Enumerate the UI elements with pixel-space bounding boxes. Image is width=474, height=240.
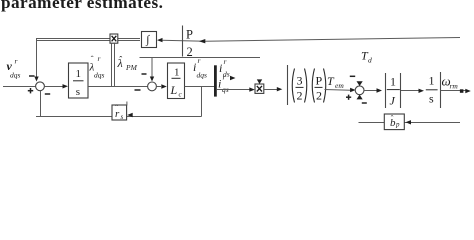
wire junction 1 to integrator — [45, 84, 69, 88]
svg-text:dqs: dqs — [10, 71, 21, 80]
minus sign friction input — [362, 102, 367, 104]
svg-text:1: 1 — [429, 74, 435, 88]
block 1/Lc — [168, 63, 185, 99]
gain (3/2)(P/2) torque constant — [292, 69, 326, 103]
wire i_qs to multiplier X2 — [217, 87, 255, 91]
wire gain 1/J to integrator 1/s — [401, 89, 424, 93]
wire junction 2 to block Lc — [157, 84, 167, 88]
wire current tap down to bottom rail — [201, 87, 203, 117]
svg-text:ˆ: ˆ — [91, 54, 94, 64]
summing junction 2 — [148, 82, 157, 91]
node input label v^r_dqs — [7, 57, 21, 80]
wire block Lc output to demux bar — [185, 86, 215, 88]
svg-text:P: P — [186, 28, 193, 42]
wire lambda_PM rail — [140, 57, 261, 59]
minus sign T_d input — [350, 75, 355, 77]
wire junction 1 bottom vertical — [40, 91, 42, 117]
svg-text:r: r — [98, 54, 101, 63]
arrowhead friction up into junction 3 — [357, 95, 363, 100]
svg-text:s: s — [121, 113, 124, 121]
wire torque to junction 3 — [325, 88, 356, 92]
wire bottom-left feedback rail — [36, 116, 202, 118]
node label T_d — [361, 49, 372, 65]
wire bottom-right friction rail — [359, 122, 461, 124]
block J (rotation by j) — [142, 32, 157, 48]
gain 1/J inline — [386, 73, 401, 108]
svg-text:1: 1 — [174, 67, 180, 79]
svg-text:2: 2 — [187, 45, 193, 59]
wire integrator output to junction 2 — [88, 86, 148, 88]
wire speed output — [441, 89, 471, 93]
arrowhead lambda_PM down into multiplier X2 — [257, 79, 262, 84]
wire multiplier X2 output — [264, 87, 283, 91]
svg-text:rm: rm — [450, 82, 459, 91]
svg-text:1: 1 — [76, 68, 82, 80]
wire lambda_PM branch down into junction 2 — [150, 58, 154, 82]
caption text "parameter estimates." (cropped at top) — [1, 0, 163, 12]
node label i^r_ds with arrow — [219, 57, 236, 80]
node multiplier X1 (omega x lambda) — [110, 34, 118, 43]
svg-text:s: s — [76, 86, 80, 98]
svg-text:J: J — [390, 94, 396, 108]
svg-text:s: s — [429, 92, 434, 106]
svg-text:r: r — [15, 57, 18, 66]
plus sign left input of junction 3 — [346, 95, 351, 100]
svg-text:parameter estimates.: parameter estimates. — [1, 0, 163, 12]
node label lambda^r_dqs — [89, 54, 105, 80]
wire long top rail from speed node — [199, 38, 460, 44]
block integrator 1/s — [69, 63, 89, 98]
svg-text:r: r — [223, 73, 226, 82]
svg-text:dqs: dqs — [94, 71, 105, 80]
svg-text:i: i — [218, 77, 221, 91]
svg-text:dqs: dqs — [197, 71, 208, 80]
svg-text:PM: PM — [125, 63, 138, 72]
svg-text:p: p — [395, 121, 400, 129]
svg-text:r: r — [198, 56, 201, 65]
svg-text:d: d — [368, 56, 372, 65]
demux thick bar — [214, 65, 217, 96]
svg-text:ˆ: ˆ — [391, 114, 394, 123]
minus sign bottom input of junction 1 — [45, 93, 50, 95]
node label omega_rm — [442, 74, 459, 91]
summing junction 3 — [355, 86, 364, 95]
wire left corner down to summing junction 1 — [34, 39, 38, 82]
node multiplier X2 (lambda_PM x i_qs) — [255, 84, 264, 93]
wire arrowhead into r_s block and tick — [127, 102, 133, 118]
block b_p friction estimate — [384, 114, 404, 130]
node label i^r_qs — [218, 73, 229, 95]
summing junction 1 — [36, 82, 45, 91]
wire junction 3 to gain 1/J — [364, 88, 382, 92]
svg-text:2: 2 — [297, 89, 303, 103]
gain P/2 inline on top rail — [183, 26, 194, 60]
node label i^r_dqs — [193, 56, 207, 80]
svg-text:P: P — [316, 74, 323, 88]
plus sign left input of junction 1 — [28, 88, 33, 93]
svg-text:r: r — [224, 57, 227, 66]
node label T_em — [327, 74, 344, 90]
svg-text:1: 1 — [390, 75, 396, 89]
node lambda_PM label — [117, 55, 138, 73]
svg-text:ˆ: ˆ — [115, 104, 118, 113]
svg-text:em: em — [335, 81, 344, 90]
wire arrowhead into b_p block — [406, 120, 412, 124]
minus sign top input of junction 1 — [29, 75, 35, 77]
minus sign top input of junction 2 — [142, 73, 147, 75]
minus sign left input of junction 2 — [135, 89, 141, 91]
wire double vertical lambda tap up to multiplier X1 — [112, 43, 115, 86]
arrowhead T_d down into junction 3 — [357, 81, 363, 86]
block r_s estimate — [112, 104, 127, 122]
svg-text:ˆ: ˆ — [119, 55, 122, 65]
wire arrow into block J — [157, 38, 205, 42]
svg-text:L: L — [170, 83, 178, 97]
svg-text:2: 2 — [316, 89, 322, 103]
gain integrator 1/s inline — [426, 72, 441, 108]
wire top double rail (jw*lambda complex signal) — [36, 39, 140, 41]
wire input to junction 1 — [3, 86, 36, 88]
svg-text:3: 3 — [297, 74, 303, 88]
gain bar before torque constant — [287, 65, 289, 105]
